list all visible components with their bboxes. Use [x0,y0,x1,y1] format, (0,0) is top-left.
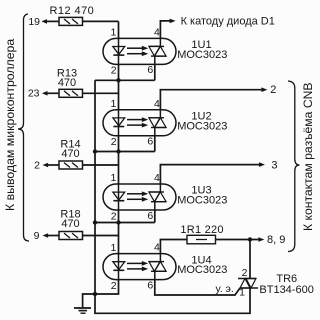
wire R13 to pin1 U2 [83,92,119,94]
svg-text:MOC3023: MOC3023 [177,195,227,207]
right brace (К контактам разъёма CNB) [288,81,300,252]
svg-text:R12 470: R12 470 [50,5,95,17]
common ground rail [94,80,96,294]
resistor R14 [59,161,83,169]
op-coupler U4 [103,242,176,292]
pin 19 arrow [41,19,47,24]
op-coupler U2 [103,98,176,148]
svg-text:470: 470 [61,218,79,230]
junction node at R1 output [248,237,252,241]
svg-text:470: 470 [61,148,79,160]
wire U1 pin4 to D1 arrow [160,21,171,39]
resistor R12 [59,17,83,25]
wire R12 to U1 pin1 [83,20,119,22]
op-coupler U1 [103,26,176,76]
svg-text:К контактам разъёма CNB: К контактам разъёма CNB [301,82,315,231]
resistor R1 [187,235,216,244]
svg-text:MOC3023: MOC3023 [177,49,227,61]
svg-text:8, 9: 8, 9 [267,234,285,246]
resistor R13 [59,89,83,97]
wire R18 to pin1 U4 [83,235,119,237]
svg-text:1R1 220: 1R1 220 [180,224,223,236]
node U2 pin2 junction [116,149,120,153]
wire R14 to pin1 U3 [83,164,119,166]
op-coupler U3 [103,172,176,222]
svg-text:у. э.: у. э. [216,283,234,295]
svg-text:470: 470 [58,77,76,89]
wire U4 pin2 to rail [95,280,119,294]
node U3 pin2 junction [116,220,120,224]
svg-text:2: 2 [34,159,40,171]
node rail junction row3 [93,220,97,224]
svg-text:23: 23 [28,88,40,100]
ground [83,294,95,308]
left brace (К выводам микроконтроллера) [18,14,29,241]
resistor R18 [59,232,83,240]
wire U1 pin2/pin6 common link [118,64,120,109]
svg-text:К выводам микроконтроллера: К выводам микроконтроллера [3,39,17,211]
svg-text:BT134-600: BT134-600 [259,284,313,296]
pin 2 arrow [43,163,49,168]
wire U4 pin4 to R1 [160,240,187,254]
svg-text:2: 2 [270,84,276,96]
svg-text:9: 9 [34,230,40,242]
wire U2 pin4 to output 2 [160,90,262,110]
svg-text:3: 3 [271,159,277,171]
node U1 pin2 junction [116,78,120,82]
svg-text:1: 1 [239,287,245,299]
wire U3 pin2/pin6 common link [118,210,120,254]
node rail junction row4 [93,292,97,296]
svg-text:2: 2 [242,267,248,279]
svg-text:К катоду диода D1: К катоду диода D1 [181,16,275,28]
pin 9 arrow [43,233,49,238]
pin 23 arrow [42,91,48,96]
triac TR6 [249,240,251,279]
wire U3 pin4 to output 3 [160,165,260,184]
svg-text:19: 19 [28,16,40,28]
wire rail to TR6 MT1 (bottom loop) [95,288,250,313]
node rail junction row2 [93,149,97,153]
svg-text:MOC3023: MOC3023 [177,120,227,132]
svg-text:MOC3023: MOC3023 [177,264,227,276]
wire U2 pin2/pin6 common link [118,136,120,184]
wire R1 to output 8,9 [216,239,260,241]
wire U4 pin6 to TR6 gate [155,280,240,295]
